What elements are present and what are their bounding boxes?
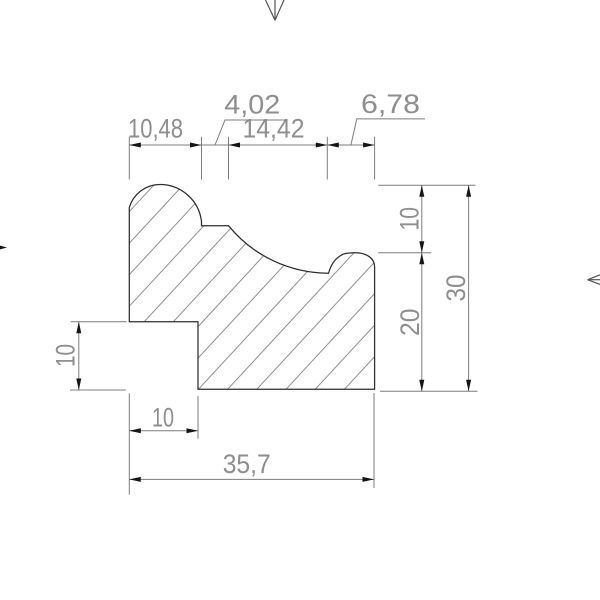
right edge marker arrow (588, 275, 600, 285)
top edge marker arrow (266, 0, 285, 20)
right dimension line 30 (468, 185, 470, 391)
left dimension arrows (76, 322, 81, 390)
right dimension line 20 (421, 253, 423, 391)
svg-text:10: 10 (152, 403, 174, 433)
bottom dimension arrows 10 (129, 428, 198, 433)
right dimensions: extension lines (378, 185, 477, 391)
leader for 6,78 (351, 119, 425, 145)
bottom dimension line 35,7 (129, 478, 374, 480)
top dimension chain: extension lines (129, 137, 374, 180)
svg-text:10: 10 (395, 207, 425, 231)
leader for 4,02 (215, 120, 286, 145)
left dimension: extension lines (70, 322, 127, 390)
left dimension line 10 (78, 322, 80, 390)
svg-text:4,02: 4,02 (224, 90, 280, 120)
left edge marker arrow (0, 244, 7, 252)
right dimension arrows (419, 185, 471, 391)
svg-text:6,78: 6,78 (361, 89, 420, 119)
hatching (0, 90, 600, 450)
svg-text:20: 20 (395, 309, 425, 337)
right dimension line 10 (421, 185, 423, 253)
bottom dimension arrows 35,7 (129, 477, 374, 482)
svg-text:30: 30 (441, 275, 471, 302)
top dimension arrows (129, 143, 374, 148)
svg-text:10,48: 10,48 (128, 114, 183, 144)
bottom dimensions: extension lines (129, 393, 374, 495)
bottom dimension line 10 (129, 430, 198, 432)
top dimension line (129, 144, 374, 146)
profile outline (129, 185, 374, 390)
svg-text:35,7: 35,7 (223, 449, 271, 479)
svg-text:10: 10 (51, 344, 81, 367)
